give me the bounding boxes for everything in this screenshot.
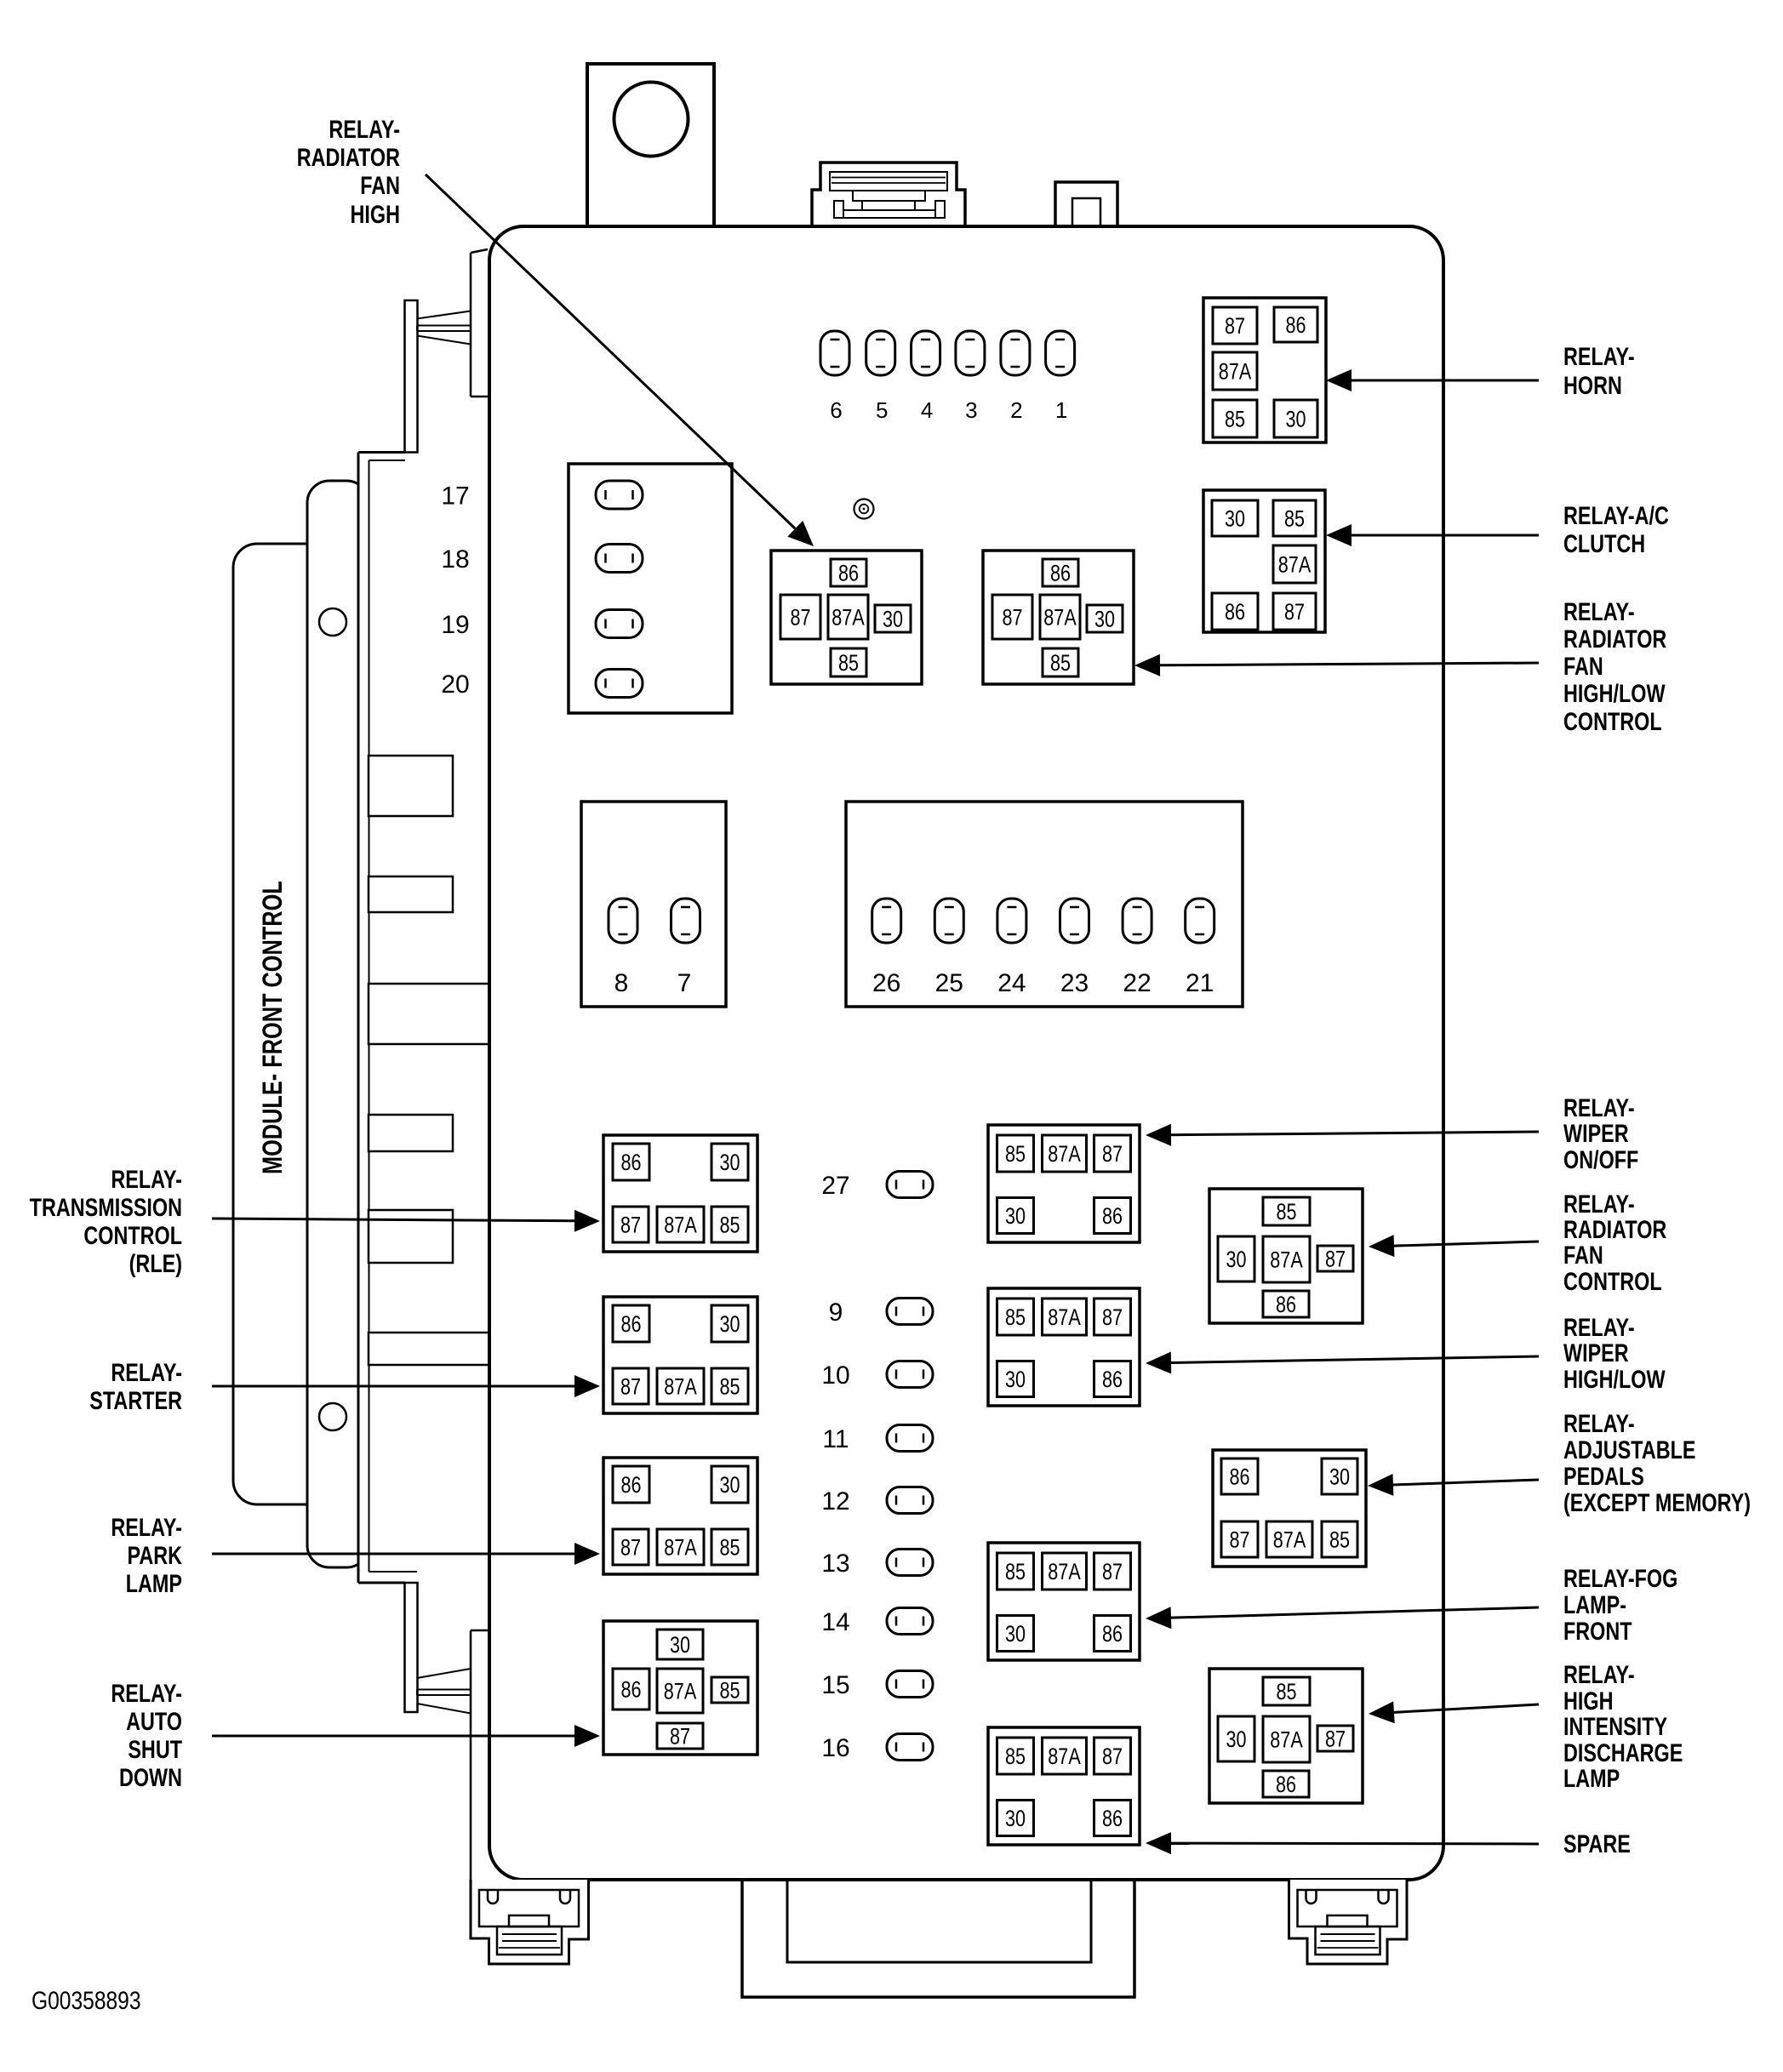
svg-text:87: 87 [1229, 1527, 1249, 1553]
fuse 17 [596, 481, 643, 509]
svg-text:87: 87 [1102, 1305, 1123, 1331]
svg-text:87A: 87A [831, 605, 865, 631]
svg-text:5: 5 [876, 397, 888, 423]
svg-text:85: 85 [719, 1535, 740, 1561]
svg-text:20: 20 [441, 671, 469, 699]
arrow to relay auto shut down [212, 1735, 574, 1738]
svg-text:RELAY-: RELAY- [1563, 1190, 1635, 1218]
svg-text:INTENSITY: INTENSITY [1563, 1712, 1667, 1740]
relay pin 87A [1273, 545, 1316, 583]
svg-text:87A: 87A [1048, 1305, 1081, 1331]
mounting hole [614, 83, 689, 157]
svg-text:RADIATOR: RADIATOR [297, 143, 400, 171]
svg-text:87A: 87A [1273, 1527, 1306, 1553]
svg-text:87: 87 [1325, 1247, 1346, 1272]
relay A/C clutch [1203, 490, 1325, 632]
relay pin 86 [1263, 1771, 1309, 1797]
svg-text:RELAY-: RELAY- [1563, 597, 1635, 625]
bottom clip barb [417, 1669, 471, 1678]
middle connector bracket shell [307, 481, 369, 1567]
svg-text:RELAY-A/C: RELAY-A/C [1563, 501, 1669, 529]
svg-text:86: 86 [1102, 1622, 1123, 1647]
svg-text:85: 85 [719, 1678, 740, 1704]
svg-text:87A: 87A [1048, 1560, 1081, 1585]
svg-text:30: 30 [1226, 1727, 1246, 1753]
fuse 13 [887, 1550, 933, 1576]
relay pin 85 [997, 1553, 1034, 1590]
fuse 22 [1123, 899, 1152, 943]
fuse 16 [887, 1734, 933, 1761]
top retaining clip pin [405, 300, 418, 453]
relay pin 87A [1263, 1236, 1310, 1282]
bottom center tab inner [787, 1881, 1091, 1962]
svg-text:RADIATOR: RADIATOR [1563, 625, 1666, 653]
svg-text:85: 85 [1050, 651, 1071, 676]
fuse 10 [887, 1361, 933, 1388]
svg-text:85: 85 [838, 651, 859, 676]
relay pin 30 [997, 1801, 1034, 1836]
svg-text:85: 85 [719, 1213, 740, 1238]
svg-text:30: 30 [719, 1150, 740, 1176]
svg-text:86: 86 [1102, 1807, 1123, 1832]
fuse block 26-21 [846, 802, 1243, 1007]
svg-text:RADIATOR: RADIATOR [1563, 1215, 1666, 1243]
relay pin 30 [875, 605, 911, 632]
arrow to relay high intensity discharge lamp [1394, 1704, 1539, 1712]
torx screw [854, 499, 874, 519]
relay radiator fan high [771, 551, 922, 684]
svg-text:27: 27 [821, 1172, 849, 1200]
fuse 20 [596, 670, 643, 698]
svg-text:HIGH: HIGH [351, 200, 400, 228]
relay pin 86 [1094, 1801, 1131, 1836]
relay high intensity discharge lamp [1209, 1669, 1363, 1803]
fuse 23 [1060, 899, 1089, 943]
relay pin 85 [1043, 648, 1078, 676]
svg-text:86: 86 [1225, 600, 1245, 625]
svg-text:30: 30 [1225, 506, 1245, 532]
relay pin 86 [1212, 593, 1258, 630]
relay pin 87 [1094, 1135, 1131, 1172]
fuse 8 [609, 899, 637, 943]
svg-text:8: 8 [614, 969, 629, 997]
svg-text:87A: 87A [664, 1374, 697, 1400]
svg-text:RELAY-: RELAY- [1563, 1409, 1635, 1437]
fuse 6 [820, 331, 849, 375]
relay pin 86 [1274, 307, 1317, 342]
svg-text:9: 9 [829, 1299, 843, 1327]
svg-text:HORN: HORN [1563, 371, 1622, 399]
relay pin 30 [997, 1616, 1034, 1652]
svg-text:85: 85 [1276, 1200, 1296, 1225]
relay pin 86 [1221, 1458, 1258, 1494]
svg-text:HIGH/LOW: HIGH/LOW [1563, 1365, 1666, 1393]
top side strip [470, 253, 472, 397]
svg-text:87: 87 [1225, 314, 1245, 340]
svg-text:10: 10 [821, 1361, 849, 1390]
arrow to relay wiper high/low [1171, 1356, 1539, 1362]
svg-text:87A: 87A [1270, 1247, 1303, 1273]
bracket screw hole bottom [319, 1403, 346, 1430]
relay pin 30 [1218, 1236, 1254, 1281]
svg-text:HIGH/LOW: HIGH/LOW [1563, 679, 1666, 707]
bracket screw hole top [319, 608, 346, 636]
module main body outline [489, 226, 1443, 1880]
side plate cavity slot 2 [369, 876, 453, 912]
fuse 24 [997, 899, 1026, 943]
fuse 25 [934, 899, 963, 943]
svg-text:RELAY-: RELAY- [111, 1679, 182, 1707]
svg-text:6: 6 [830, 397, 842, 423]
fuse 15 [887, 1671, 933, 1698]
svg-text:7: 7 [677, 969, 692, 997]
svg-text:DISCHARGE: DISCHARGE [1563, 1738, 1683, 1767]
side plate cavity slot 4 [369, 1210, 453, 1263]
fuse 14 [887, 1608, 933, 1635]
svg-text:87A: 87A [1043, 605, 1077, 631]
svg-text:4: 4 [921, 397, 933, 423]
svg-text:14: 14 [821, 1608, 849, 1636]
arrow to relay fog lamp front [1171, 1607, 1539, 1618]
fuse 9 [887, 1299, 933, 1325]
svg-text:SPARE: SPARE [1563, 1829, 1631, 1858]
svg-text:86: 86 [1276, 1772, 1296, 1798]
svg-text:SHUT: SHUT [128, 1735, 182, 1763]
relay pin 87 [1317, 1246, 1353, 1271]
outer connector bracket (leftmost shell) [233, 544, 332, 1504]
relay pin 86 [613, 1669, 649, 1710]
svg-text:WIPER: WIPER [1563, 1339, 1629, 1367]
svg-text:LAMP: LAMP [126, 1569, 182, 1597]
fuse 12 [887, 1487, 933, 1514]
side plate band 1 [369, 984, 489, 1044]
fuse 7 [671, 899, 700, 943]
svg-text:86: 86 [1050, 561, 1071, 586]
svg-text:G00358893: G00358893 [31, 1986, 141, 2015]
arrow to relay transmission control [212, 1219, 574, 1221]
relay pin 30 [711, 1466, 748, 1503]
relay pin 30 [1087, 605, 1123, 632]
relay pin 87 [1273, 593, 1316, 630]
left mounting foot [471, 1880, 589, 1964]
svg-text:87: 87 [1002, 605, 1022, 631]
arrow to relay wiper on/off [1171, 1132, 1539, 1135]
relay adjustable pedals [1213, 1450, 1366, 1567]
relay pin 87 [1094, 1738, 1131, 1774]
fuse 3 [956, 331, 985, 375]
svg-text:85: 85 [1329, 1527, 1350, 1553]
svg-text:87: 87 [620, 1213, 641, 1238]
svg-text:RELAY-: RELAY- [111, 1358, 182, 1386]
side plate cavity slot 3 [369, 1115, 453, 1151]
top clip barb [417, 311, 471, 319]
relay pin 87A [1213, 352, 1257, 390]
svg-text:85: 85 [1284, 506, 1305, 532]
relay pin 85 [711, 1207, 748, 1242]
svg-text:87: 87 [1284, 600, 1305, 625]
svg-text:86: 86 [620, 1473, 641, 1498]
svg-text:30: 30 [1005, 1807, 1026, 1832]
svg-text:15: 15 [821, 1671, 849, 1699]
fuse 1 [1046, 331, 1075, 375]
svg-text:87A: 87A [1278, 552, 1312, 578]
relay pin 87A [1266, 1521, 1312, 1557]
relay pin 30 [1322, 1458, 1357, 1494]
relay pin 87A [1043, 1553, 1087, 1590]
svg-text:30: 30 [719, 1312, 740, 1338]
svg-text:87A: 87A [664, 1535, 697, 1561]
fuse 5 [866, 331, 895, 375]
svg-text:TRANSMISSION: TRANSMISSION [30, 1193, 182, 1221]
svg-text:LAMP: LAMP [1563, 1764, 1620, 1792]
svg-text:87: 87 [1102, 1560, 1123, 1585]
svg-text:85: 85 [719, 1374, 740, 1400]
svg-text:87A: 87A [1219, 359, 1252, 385]
svg-text:CONTROL: CONTROL [1563, 707, 1662, 735]
svg-text:87A: 87A [664, 1679, 697, 1704]
bottom retaining clip pin [405, 1583, 418, 1712]
relay pin 85 [997, 1135, 1034, 1172]
svg-text:2: 2 [1010, 397, 1022, 423]
svg-text:24: 24 [997, 969, 1026, 997]
arrow to relay A/C clutch [1352, 534, 1539, 537]
svg-text:87A: 87A [1048, 1142, 1081, 1167]
relay pin 87 [613, 1207, 649, 1242]
arrow to relay radiator fan control [1394, 1241, 1539, 1246]
svg-text:RELAY-FOG: RELAY-FOG [1563, 1564, 1677, 1592]
svg-text:87A: 87A [1270, 1727, 1303, 1753]
svg-text:18: 18 [441, 545, 469, 574]
svg-text:19: 19 [441, 611, 469, 639]
relay pin 86 [831, 559, 866, 586]
svg-text:CLUTCH: CLUTCH [1563, 529, 1645, 557]
arrow to relay horn [1352, 380, 1539, 382]
svg-text:25: 25 [935, 969, 963, 997]
arrow to relay radiator fan high/low control [1160, 663, 1539, 665]
svg-text:86: 86 [838, 561, 859, 586]
relay pin 87 [613, 1529, 649, 1565]
svg-text:PEDALS: PEDALS [1563, 1462, 1644, 1490]
bottom center tab outer [742, 1881, 1134, 1997]
relay pin 87 [780, 595, 820, 639]
svg-text:87A: 87A [664, 1213, 697, 1238]
relay pin 30 [1218, 1716, 1254, 1761]
svg-text:FRONT: FRONT [1563, 1617, 1632, 1645]
svg-text:30: 30 [1285, 407, 1306, 432]
relay pin 30 [997, 1361, 1034, 1397]
svg-text:PARK: PARK [127, 1541, 182, 1569]
svg-text:RELAY-: RELAY- [329, 115, 400, 143]
svg-text:86: 86 [620, 1312, 641, 1338]
svg-text:12: 12 [821, 1487, 849, 1515]
fuse 19 [596, 610, 643, 638]
relay pin 86 [1094, 1198, 1131, 1234]
fuse block 8-7 [581, 802, 726, 1007]
relay radiator fan high/low control [983, 551, 1134, 684]
relay pin 87A [657, 1207, 704, 1242]
svg-text:86: 86 [620, 1150, 641, 1176]
relay pin 87A [657, 1368, 704, 1404]
relay pin 87 [1094, 1553, 1131, 1590]
relay pin 85 [1263, 1677, 1310, 1705]
svg-text:RELAY-: RELAY- [1563, 342, 1635, 370]
relay pin 87A [657, 1669, 703, 1713]
svg-text:85: 85 [1005, 1744, 1026, 1770]
diagonal arrow to relay radiator fan high [426, 174, 795, 528]
svg-text:85: 85 [1005, 1560, 1026, 1585]
svg-text:87A: 87A [1048, 1744, 1081, 1770]
relay pin 85 [1263, 1197, 1310, 1225]
relay pin 30 [711, 1305, 748, 1342]
svg-text:DOWN: DOWN [119, 1763, 182, 1791]
relay pin 86 [613, 1466, 649, 1503]
svg-text:ON/OFF: ON/OFF [1563, 1145, 1638, 1173]
svg-text:RELAY-: RELAY- [111, 1165, 182, 1193]
svg-text:87: 87 [1102, 1744, 1123, 1770]
svg-text:85: 85 [1005, 1142, 1026, 1167]
svg-text:85: 85 [1276, 1680, 1296, 1705]
arrow to relay starter [212, 1385, 574, 1388]
svg-text:30: 30 [1094, 607, 1115, 632]
relay pin 85 [1322, 1521, 1357, 1557]
svg-text:FAN: FAN [1563, 1241, 1603, 1269]
svg-text:30: 30 [1005, 1204, 1026, 1230]
svg-text:26: 26 [872, 969, 900, 997]
relay pin 85 [831, 648, 866, 676]
svg-text:87: 87 [1102, 1142, 1123, 1167]
relay pin 85 [1273, 500, 1316, 536]
svg-text:87: 87 [1325, 1727, 1346, 1752]
top mounting tab [587, 64, 714, 226]
relay pin 85 [997, 1299, 1034, 1335]
svg-text:(EXCEPT MEMORY): (EXCEPT MEMORY) [1563, 1488, 1751, 1516]
svg-text:87: 87 [620, 1374, 641, 1400]
svg-text:RELAY-: RELAY- [1563, 1093, 1635, 1122]
svg-text:RELAY-: RELAY- [1563, 1660, 1635, 1688]
bottom side strip [470, 1630, 472, 1938]
relay pin 87 [1317, 1726, 1353, 1751]
svg-text:85: 85 [1225, 407, 1245, 432]
relay spare [988, 1727, 1140, 1845]
svg-text:3: 3 [965, 397, 977, 423]
relay pin 85 [711, 1529, 748, 1565]
relay auto shut down [603, 1621, 757, 1755]
svg-text:86: 86 [1285, 313, 1306, 339]
relay pin 86 [613, 1144, 649, 1180]
relay pin 86 [1043, 559, 1078, 586]
side plate cavity slot 1 [369, 756, 453, 816]
relay pin 86 [1094, 1616, 1131, 1652]
relay wiper on/off [988, 1125, 1140, 1242]
svg-text:86: 86 [1102, 1204, 1123, 1230]
relay pin 86 [613, 1305, 649, 1342]
arrow to relay spare [1171, 1842, 1539, 1846]
svg-text:86: 86 [620, 1677, 641, 1703]
relay pin 87A [1263, 1716, 1310, 1762]
svg-text:86: 86 [1102, 1367, 1123, 1393]
side plate band 2 [369, 1333, 489, 1365]
svg-text:30: 30 [670, 1633, 690, 1658]
arrow to relay adjustable pedals [1393, 1480, 1539, 1485]
svg-text:16: 16 [821, 1734, 849, 1762]
relay wiper high/low [988, 1288, 1140, 1406]
svg-text:CONTROL: CONTROL [1563, 1267, 1662, 1295]
top latch connector [812, 163, 965, 226]
fuse 26 [872, 899, 901, 943]
svg-text:30: 30 [719, 1473, 740, 1498]
svg-text:ADJUSTABLE: ADJUSTABLE [1563, 1436, 1696, 1464]
fuse 4 [912, 331, 940, 375]
relay pin 87A [1043, 1135, 1087, 1172]
relay pin 87 [1094, 1299, 1131, 1335]
relay pin 85 [997, 1738, 1034, 1774]
relay pin 87A [828, 595, 868, 639]
svg-text:MODULE- FRONT CONTROL: MODULE- FRONT CONTROL [258, 881, 289, 1174]
relay horn [1203, 298, 1326, 442]
fuse 2 [1001, 331, 1030, 375]
fuse 21 [1186, 899, 1214, 943]
svg-text:21: 21 [1186, 969, 1214, 997]
svg-text:HIGH: HIGH [1563, 1687, 1613, 1715]
relay park lamp [603, 1458, 757, 1574]
relay radiator fan control [1209, 1189, 1363, 1323]
svg-text:30: 30 [1329, 1464, 1350, 1490]
svg-text:AUTO: AUTO [126, 1707, 182, 1735]
arrow to relay park lamp [212, 1553, 574, 1555]
relay pin 30 [1212, 500, 1258, 536]
relay pin 87 [1221, 1521, 1258, 1557]
svg-text:87: 87 [620, 1535, 641, 1561]
relay pin 87A [1043, 1299, 1087, 1335]
relay pin 87 [1213, 307, 1257, 344]
svg-text:23: 23 [1060, 969, 1089, 997]
svg-text:86: 86 [1276, 1293, 1296, 1318]
svg-text:STARTER: STARTER [89, 1386, 182, 1414]
svg-text:86: 86 [1229, 1464, 1249, 1490]
svg-text:17: 17 [441, 482, 469, 511]
svg-text:13: 13 [821, 1550, 849, 1578]
relay pin 87A [1040, 595, 1080, 639]
fuse 11 [887, 1425, 933, 1452]
fuse 18 [596, 545, 643, 573]
svg-text:87: 87 [670, 1724, 690, 1749]
relay pin 87A [657, 1529, 704, 1565]
svg-text:CONTROL: CONTROL [83, 1221, 182, 1249]
relay pin 85 [711, 1368, 748, 1404]
relay pin 86 [1094, 1361, 1131, 1397]
relay pin 87 [992, 595, 1032, 639]
svg-text:85: 85 [1005, 1305, 1026, 1331]
relay pin 30 [711, 1144, 748, 1180]
relay transmission control (RLE) [603, 1135, 757, 1252]
relay pin 85 [711, 1677, 748, 1703]
svg-text:22: 22 [1123, 969, 1151, 997]
svg-text:30: 30 [1226, 1247, 1246, 1273]
relay pin 86 [1263, 1291, 1309, 1317]
relay pin 30 [997, 1198, 1034, 1234]
relay pin 87A [1043, 1738, 1087, 1774]
svg-text:30: 30 [883, 607, 903, 632]
svg-text:1: 1 [1055, 397, 1067, 423]
relay pin 87 [657, 1723, 703, 1749]
top small connector [1055, 182, 1117, 226]
svg-text:11: 11 [822, 1425, 849, 1453]
right mounting foot [1289, 1880, 1408, 1964]
svg-text:FAN: FAN [360, 171, 400, 199]
svg-text:(RLE): (RLE) [129, 1249, 182, 1277]
svg-text:RELAY-: RELAY- [1563, 1313, 1635, 1341]
fuse 27 [887, 1172, 933, 1198]
